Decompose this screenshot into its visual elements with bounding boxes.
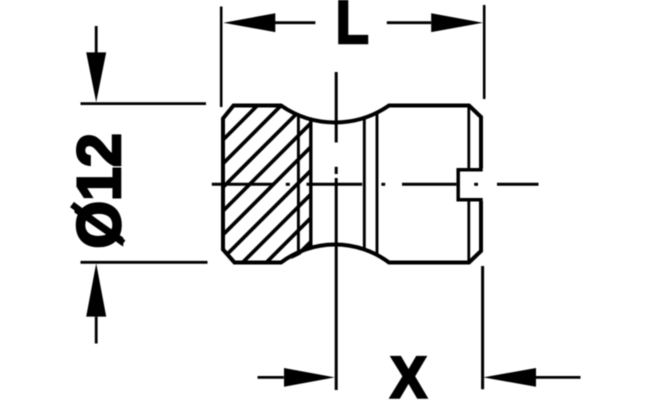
L dimension line left segment bbox=[275, 21, 315, 24]
screw slot bbox=[457, 168, 483, 201]
L dimension line right segment bbox=[387, 21, 431, 24]
X dimension line left tail bbox=[258, 376, 284, 379]
diameter dimension: top extension line bbox=[81, 102, 207, 105]
hatching (section lines) bbox=[69, 95, 457, 270]
X dimension line right tail bbox=[536, 376, 581, 379]
L dimension: left extension line bbox=[220, 7, 223, 108]
diameter dimension: bottom extension line bbox=[81, 261, 208, 264]
L dimension: right extension line bbox=[483, 5, 486, 99]
inner vertical edge line x=298.4 bbox=[297, 115, 300, 252]
svg-text:Ø12: Ø12 bbox=[65, 133, 133, 248]
inner vertical edge line x=377 bbox=[376, 112, 379, 255]
inner vertical edge line x=364.3 bbox=[363, 118, 366, 250]
svg-text:L: L bbox=[336, 0, 369, 56]
L left arrowhead bbox=[223, 13, 275, 32]
horizontal centerline bbox=[212, 183, 539, 186]
part outline bbox=[223, 106, 481, 263]
X left arrowhead (points right) bbox=[284, 368, 335, 387]
diameter dimension: lower arrowhead (up) bbox=[86, 263, 106, 316]
svg-text:X: X bbox=[390, 346, 427, 400]
diameter dimension: lower leader line bbox=[95, 317, 98, 344]
vertical centerline bbox=[335, 72, 338, 390]
X right arrowhead (points left) bbox=[483, 368, 536, 387]
X dimension: right extension line bbox=[481, 266, 484, 389]
section boundary line x=310.8 bbox=[309, 119, 312, 247]
L right arrowhead bbox=[431, 13, 483, 32]
diameter dimension: upper leader line bbox=[95, 26, 98, 53]
diameter label O-slash overlay bbox=[72, 205, 124, 244]
right chamfer inner edge (lower) bbox=[467, 201, 470, 261]
diameter dimension: upper arrowhead (down) bbox=[86, 52, 106, 102]
right chamfer inner edge (upper) bbox=[467, 107, 470, 168]
